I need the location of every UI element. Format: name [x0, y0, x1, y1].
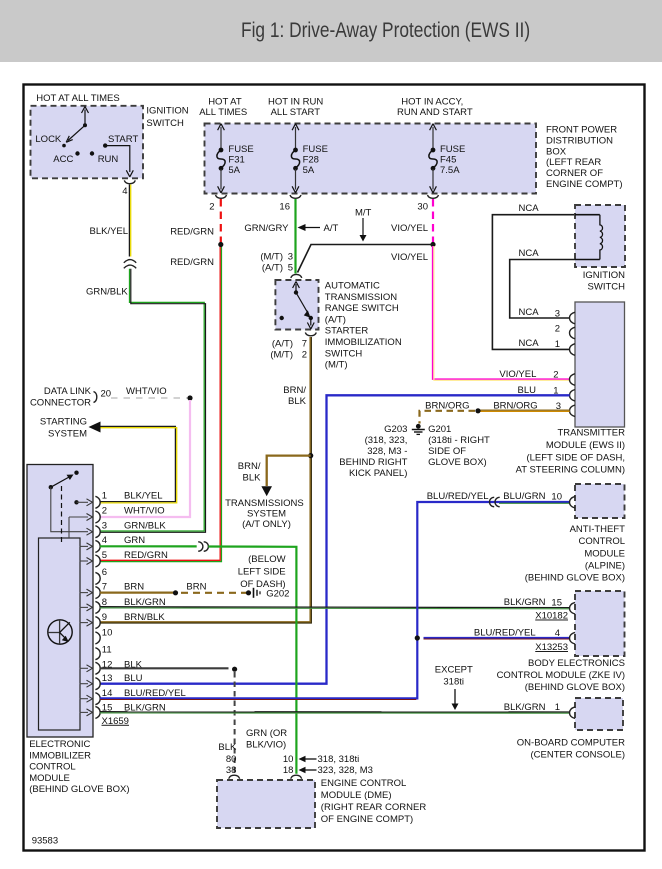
svg-text:30: 30	[417, 202, 428, 213]
wire GRN/BLK to immobilizer pin 3	[86, 269, 206, 533]
svg-text:(BEHIND GLOVE BOX): (BEHIND GLOVE BOX)	[29, 784, 129, 795]
svg-text:HOT AT ALL TIMES: HOT AT ALL TIMES	[36, 93, 119, 104]
pin 7 BRN	[95, 587, 100, 599]
wire BRN pin 7 with ground G202	[100, 554, 289, 599]
anti-theft control module	[525, 484, 625, 584]
svg-text:ENGINE COMPT): ENGINE COMPT)	[546, 179, 623, 190]
svg-text:SIDE OF: SIDE OF	[428, 446, 466, 457]
svg-text:CORNER OF: CORNER OF	[546, 168, 603, 179]
svg-text:VIO/YEL: VIO/YEL	[391, 252, 428, 263]
svg-text:BLK: BLK	[243, 473, 262, 484]
svg-text:ALL START: ALL START	[271, 107, 321, 118]
svg-text:38: 38	[226, 765, 237, 776]
svg-text:BLU: BLU	[518, 385, 537, 396]
svg-text:(BEHIND GLOVE BOX): (BEHIND GLOVE BOX)	[525, 682, 625, 693]
ground symbol G203/G201	[416, 424, 421, 429]
svg-text:(A/T): (A/T)	[272, 339, 293, 350]
svg-text:(RIGHT REAR CORNER: (RIGHT REAR CORNER	[321, 802, 427, 813]
svg-text:CONNECTOR: CONNECTOR	[30, 398, 91, 409]
svg-text:1: 1	[555, 339, 560, 350]
svg-text:DISTRIBUTION: DISTRIBUTION	[546, 135, 613, 146]
svg-text:15: 15	[551, 597, 562, 608]
electronic immobilizer control module	[27, 465, 93, 738]
svg-text:(LEFT SIDE OF DASH,: (LEFT SIDE OF DASH,	[526, 452, 625, 463]
svg-text:RED/GRN: RED/GRN	[124, 550, 168, 561]
svg-text:CONTROL: CONTROL	[579, 536, 625, 547]
svg-text:SWITCH: SWITCH	[588, 282, 626, 293]
svg-text:318, 318ti: 318, 318ti	[318, 754, 360, 765]
svg-text:BODY ELECTRONICS: BODY ELECTRONICS	[528, 658, 625, 669]
svg-text:BRN: BRN	[124, 582, 144, 593]
svg-text:NCA: NCA	[519, 248, 540, 259]
wire BRN/BLK from range switch to immobilizer pin 9	[100, 337, 313, 623]
svg-text:FRONT POWER: FRONT POWER	[546, 125, 617, 136]
svg-text:IMMOBILIZER: IMMOBILIZER	[29, 750, 91, 761]
svg-text:9: 9	[102, 612, 107, 623]
svg-text:F31: F31	[228, 154, 244, 165]
svg-text:20: 20	[101, 389, 112, 400]
svg-text:80: 80	[226, 754, 237, 765]
svg-text:2: 2	[102, 505, 107, 516]
pin 5 RED/GRN	[95, 555, 100, 567]
svg-text:MODULE (DME): MODULE (DME)	[321, 790, 392, 801]
svg-text:2: 2	[555, 324, 560, 335]
svg-text:(M/T): (M/T)	[260, 252, 283, 263]
svg-text:OF DASH): OF DASH)	[240, 579, 285, 590]
svg-text:GLOVE BOX): GLOVE BOX)	[428, 457, 487, 468]
junction with M/T wire	[430, 242, 435, 247]
svg-text:(BELOW: (BELOW	[248, 554, 286, 565]
svg-text:BLU/GRN: BLU/GRN	[503, 491, 545, 502]
svg-text:5: 5	[288, 263, 293, 274]
svg-text:IGNITION: IGNITION	[146, 106, 188, 117]
svg-text:2: 2	[553, 369, 558, 380]
svg-text:323, 328, M3: 323, 328, M3	[318, 765, 373, 776]
svg-text:BRN/: BRN/	[283, 385, 306, 396]
svg-text:TRANSMISSIONS: TRANSMISSIONS	[225, 498, 304, 509]
svg-text:MODULE: MODULE	[29, 773, 70, 784]
svg-text:3: 3	[288, 252, 293, 263]
pin 15 BLK/GRN	[95, 706, 100, 718]
svg-text:IMMOBILIZATION: IMMOBILIZATION	[325, 337, 402, 348]
wire GRN pin 4 to engine control module	[100, 542, 296, 774]
wire BLU from transmitter pin 1 to immobilizer pin 13	[100, 385, 570, 684]
svg-text:ANTI-THEFT: ANTI-THEFT	[570, 524, 626, 535]
svg-text:FUSE: FUSE	[228, 144, 253, 155]
pin 9 BRN/BLK	[95, 617, 100, 629]
svg-text:WHT/VIO: WHT/VIO	[124, 505, 165, 516]
svg-text:X13253: X13253	[535, 642, 568, 653]
svg-text:GRN (OR: GRN (OR	[246, 728, 287, 739]
wire GRN/GRY from fuse F28	[244, 199, 338, 274]
wire VIO/YEL solid to transmitter module pin 2	[433, 246, 570, 380]
pin 2 WHT/VIO	[95, 511, 100, 523]
svg-text:HOT AT: HOT AT	[208, 97, 242, 108]
svg-text:CONTROL MODULE (ZKE IV): CONTROL MODULE (ZKE IV)	[497, 670, 625, 681]
transmitter module (EWS II)	[516, 302, 626, 476]
pin 8 BLK/GRN	[95, 601, 100, 613]
svg-text:MODULE: MODULE	[584, 548, 625, 559]
fuse F45 7.5A	[428, 124, 466, 199]
svg-text:LOCK: LOCK	[35, 134, 62, 145]
pin 1 BLK/YEL	[95, 496, 100, 508]
svg-text:BLK/YEL: BLK/YEL	[90, 226, 129, 237]
svg-text:GRN/GRY: GRN/GRY	[244, 223, 289, 234]
svg-text:HOT IN RUN: HOT IN RUN	[268, 97, 323, 108]
starting system arrow and wire BLK/YEL to pin 1	[40, 417, 177, 503]
svg-text:4: 4	[555, 628, 560, 639]
ignition switch (key positions)	[31, 93, 189, 197]
svg-text:1: 1	[102, 491, 107, 502]
pin 11 (not used)	[95, 648, 100, 660]
pin 10 (not used)	[95, 632, 100, 644]
svg-text:BLK/YEL: BLK/YEL	[124, 491, 163, 502]
svg-text:EXCEPT: EXCEPT	[435, 665, 473, 676]
A/T arrow pointing at wire	[300, 227, 320, 229]
wire RED/GRN dashed from fuse F31	[170, 199, 223, 268]
svg-text:BRN/: BRN/	[238, 461, 261, 472]
svg-text:BRN/BLK: BRN/BLK	[124, 612, 165, 623]
fuse F28 5A	[290, 124, 328, 199]
svg-text:OF ENGINE COMPT): OF ENGINE COMPT)	[321, 814, 413, 825]
svg-text:IGNITION: IGNITION	[583, 270, 625, 281]
svg-text:3: 3	[556, 401, 561, 412]
svg-text:BLK/GRN: BLK/GRN	[504, 597, 546, 608]
svg-text:GRN/BLK: GRN/BLK	[124, 521, 166, 532]
svg-text:BLK: BLK	[288, 396, 307, 407]
svg-text:10: 10	[102, 627, 113, 638]
wire RED/GRN solid to immobilizer pin 5	[100, 247, 222, 562]
svg-text:(LEFT REAR: (LEFT REAR	[546, 157, 601, 168]
svg-text:FUSE: FUSE	[440, 144, 465, 155]
svg-text:KICK PANEL): KICK PANEL)	[349, 468, 407, 479]
on-board computer	[517, 698, 625, 760]
svg-text:VIO/YEL: VIO/YEL	[499, 369, 536, 380]
svg-text:(318ti - RIGHT: (318ti - RIGHT	[428, 435, 490, 446]
svg-text:(A/T ONLY): (A/T ONLY)	[242, 519, 291, 530]
svg-text:BLK: BLK	[218, 742, 237, 753]
svg-text:10: 10	[551, 491, 562, 502]
svg-text:AUTOMATIC: AUTOMATIC	[325, 281, 380, 292]
engine control module (DME)	[217, 728, 426, 828]
svg-text:RED/GRN: RED/GRN	[170, 257, 214, 268]
svg-text:ENGINE CONTROL: ENGINE CONTROL	[321, 778, 407, 789]
wire WHT/VIO to immobilizer pin 2	[100, 400, 190, 517]
svg-text:3: 3	[555, 309, 560, 320]
svg-text:BLU/RED/YEL: BLU/RED/YEL	[474, 628, 536, 639]
svg-text:(M/T): (M/T)	[325, 360, 348, 371]
svg-text:7: 7	[102, 582, 107, 593]
pin 4 connector cup	[124, 180, 135, 183]
wire BLK/YEL from ignition switch pin 4	[90, 185, 131, 257]
svg-text:FUSE: FUSE	[303, 144, 328, 155]
svg-text:ELECTRONIC: ELECTRONIC	[29, 739, 90, 750]
wire from START to pin 4	[105, 146, 130, 172]
automatic transmission range switch	[260, 252, 402, 371]
pin 12 BLK	[95, 662, 100, 674]
svg-text:ACC: ACC	[53, 154, 73, 165]
svg-text:BLK/VIO): BLK/VIO)	[246, 740, 286, 751]
svg-text:2: 2	[302, 350, 307, 361]
svg-text:G203: G203	[384, 424, 407, 435]
svg-text:SYSTEM: SYSTEM	[247, 509, 286, 520]
svg-text:16: 16	[279, 202, 290, 213]
svg-text:(A/T): (A/T)	[262, 263, 283, 274]
wire BLK pin 12 to engine control module	[100, 667, 237, 774]
svg-text:F28: F28	[303, 154, 319, 165]
fuse F31 5A	[216, 124, 254, 199]
svg-text:10: 10	[283, 754, 294, 765]
svg-text:(BEHIND GLOVE BOX): (BEHIND GLOVE BOX)	[525, 573, 625, 584]
body electronics control module (ZKE IV)	[474, 591, 625, 693]
immobilizer internal pin stubs	[80, 546, 89, 712]
svg-text:BLU/RED/YEL: BLU/RED/YEL	[427, 491, 489, 502]
title bar	[0, 0, 662, 62]
svg-text:X1659: X1659	[102, 716, 129, 727]
svg-text:(M/T): (M/T)	[270, 350, 293, 361]
svg-text:GRN: GRN	[124, 535, 145, 546]
svg-text:BRN/ORG: BRN/ORG	[493, 401, 537, 412]
junction to transmissions system	[308, 453, 313, 458]
front power distribution box	[199, 97, 622, 194]
svg-text:LEFT SIDE: LEFT SIDE	[238, 567, 286, 578]
svg-text:BEHIND RIGHT: BEHIND RIGHT	[339, 457, 407, 468]
pin 4 GRN	[95, 540, 100, 552]
svg-text:ALL TIMES: ALL TIMES	[199, 107, 247, 118]
svg-text:(ALPINE): (ALPINE)	[585, 561, 625, 572]
svg-text:AT STEERING COLUMN): AT STEERING COLUMN)	[516, 465, 625, 476]
svg-text:A/T: A/T	[324, 223, 339, 234]
svg-text:CONTROL: CONTROL	[29, 762, 75, 773]
svg-text:7: 7	[302, 339, 307, 350]
svg-text:4: 4	[102, 535, 107, 546]
svg-text:318ti: 318ti	[443, 677, 464, 688]
junction	[218, 242, 223, 247]
svg-text:(A/T): (A/T)	[325, 314, 346, 325]
svg-text:START: START	[108, 134, 138, 145]
svg-text:WHT/VIO: WHT/VIO	[126, 386, 167, 397]
M/T selector wire (black) into A/T switch	[298, 208, 434, 273]
svg-text:HOT IN ACCY,: HOT IN ACCY,	[401, 97, 463, 108]
internal switch	[74, 471, 78, 475]
svg-text:SWITCH: SWITCH	[146, 118, 184, 129]
svg-text:DATA LINK: DATA LINK	[44, 386, 92, 397]
svg-text:NCA: NCA	[519, 338, 540, 349]
svg-text:(318, 323,: (318, 323,	[365, 435, 408, 446]
transistor symbol	[48, 620, 72, 644]
svg-text:1: 1	[555, 702, 560, 713]
svg-text:STARTER: STARTER	[325, 326, 369, 337]
svg-text:X10182: X10182	[535, 611, 568, 622]
pin 14 BLU/RED/YEL	[95, 693, 100, 705]
svg-text:328, M3 -: 328, M3 -	[367, 446, 407, 457]
svg-text:BRN/ORG: BRN/ORG	[425, 401, 469, 412]
svg-text:13: 13	[102, 673, 113, 684]
pin 3 GRN/BLK	[95, 526, 100, 538]
svg-text:5A: 5A	[303, 165, 315, 176]
NCA wires and ignition switch coil	[492, 203, 599, 349]
svg-text:RANGE SWITCH: RANGE SWITCH	[325, 303, 399, 314]
svg-text:(CENTER CONSOLE): (CENTER CONSOLE)	[531, 749, 625, 760]
wire BLK/GRN pin 8 to body electronics module pin 15	[100, 607, 570, 609]
svg-text:BLK/GRN: BLK/GRN	[504, 702, 546, 713]
svg-text:2: 2	[209, 202, 214, 213]
svg-text:6: 6	[102, 567, 107, 578]
svg-text:18: 18	[283, 765, 294, 776]
svg-text:TRANSMITTER: TRANSMITTER	[557, 428, 625, 439]
svg-text:4: 4	[122, 186, 127, 197]
svg-text:RED/GRN: RED/GRN	[170, 227, 214, 238]
svg-text:5A: 5A	[228, 165, 240, 176]
wire BLU/RED/YEL pin 14 branch	[100, 491, 570, 699]
svg-text:NCA: NCA	[519, 203, 540, 214]
svg-text:M/T: M/T	[355, 208, 372, 219]
svg-text:VIO/YEL: VIO/YEL	[391, 223, 428, 234]
data link connector	[30, 386, 193, 409]
svg-text:11: 11	[102, 645, 112, 656]
svg-text:1: 1	[553, 386, 558, 397]
svg-text:STARTING: STARTING	[40, 417, 87, 428]
ground symbol G202	[253, 588, 255, 598]
svg-text:GRN/BLK: GRN/BLK	[86, 287, 128, 298]
svg-text:TRANSMISSION: TRANSMISSION	[325, 292, 397, 303]
svg-text:RUN: RUN	[98, 154, 119, 165]
svg-text:BLU: BLU	[124, 673, 143, 684]
svg-text:93583: 93583	[32, 836, 58, 847]
immobilizer pins: arcs, arrows, numbers, wire labels	[29, 491, 186, 795]
wire BLK/GRN pin 15 to on-board computer pin 1	[100, 665, 570, 714]
svg-text:MODULE (EWS II): MODULE (EWS II)	[546, 440, 625, 451]
svg-text:RUN AND START: RUN AND START	[397, 107, 473, 118]
svg-text:NCA: NCA	[519, 307, 540, 318]
wire BRN/ORG with grounds G203 G201	[339, 401, 569, 480]
pin 6 (not used)	[95, 572, 100, 584]
svg-text:ON-BOARD COMPUTER: ON-BOARD COMPUTER	[517, 737, 625, 748]
svg-text:F45: F45	[440, 154, 456, 165]
svg-text:5: 5	[102, 550, 107, 561]
svg-text:G201: G201	[428, 424, 451, 435]
svg-text:BOX: BOX	[546, 146, 567, 157]
svg-text:SYSTEM: SYSTEM	[48, 429, 87, 440]
svg-text:BRN: BRN	[186, 582, 206, 593]
wire VIO/YEL dashed from fuse F45	[391, 199, 436, 263]
ignition switch coil box	[575, 205, 625, 293]
inline connector on ignition feed	[124, 260, 136, 269]
svg-text:3: 3	[102, 521, 107, 532]
svg-text:7.5A: 7.5A	[440, 165, 460, 176]
pin 13 BLU	[95, 678, 100, 690]
svg-text:SWITCH: SWITCH	[325, 348, 363, 359]
